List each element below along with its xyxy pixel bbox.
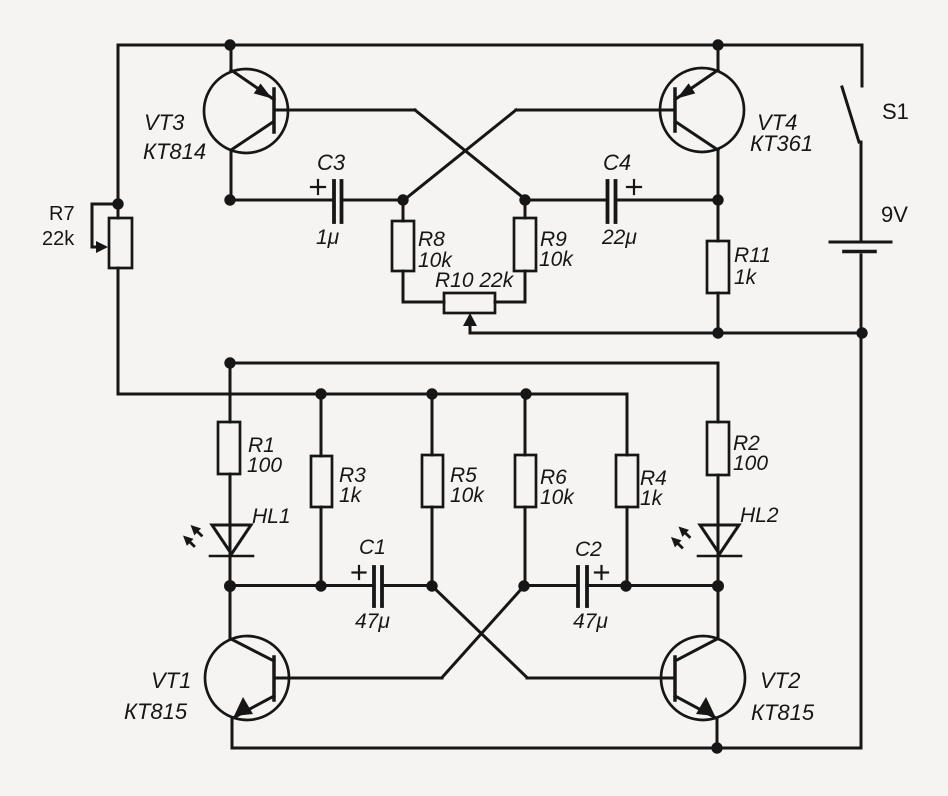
svg-text:КТ815: КТ815 [124, 699, 188, 724]
svg-text:22μ: 22μ [601, 226, 637, 249]
svg-text:HL2: HL2 [740, 504, 779, 527]
svg-text:VT2: VT2 [760, 668, 800, 693]
svg-text:VT1: VT1 [151, 668, 191, 693]
svg-text:1k: 1k [339, 484, 363, 507]
svg-text:КТ815: КТ815 [751, 700, 815, 725]
svg-text:R10 22k: R10 22k [435, 269, 515, 292]
svg-text:C2: C2 [575, 538, 602, 561]
svg-text:100: 100 [733, 452, 768, 475]
svg-text:HL1: HL1 [252, 505, 291, 528]
svg-text:47μ: 47μ [355, 610, 390, 633]
svg-text:22k: 22k [42, 228, 75, 250]
svg-text:10k: 10k [539, 248, 574, 271]
svg-text:1k: 1k [734, 266, 758, 289]
svg-text:1μ: 1μ [316, 226, 340, 249]
svg-text:VT3: VT3 [144, 110, 185, 135]
svg-text:КТ814: КТ814 [143, 139, 206, 164]
svg-text:47μ: 47μ [573, 610, 608, 633]
svg-text:10k: 10k [450, 484, 485, 507]
svg-text:9V: 9V [881, 202, 908, 227]
svg-text:КТ361: КТ361 [750, 131, 813, 156]
svg-text:R7: R7 [49, 203, 75, 225]
svg-text:S1: S1 [882, 99, 909, 124]
svg-text:R11: R11 [734, 244, 771, 267]
svg-text:C4: C4 [603, 150, 631, 175]
svg-text:10k: 10k [540, 486, 575, 509]
svg-text:C1: C1 [359, 536, 386, 559]
svg-text:1k: 1k [640, 487, 664, 510]
svg-text:C3: C3 [317, 150, 346, 175]
svg-text:R8: R8 [418, 228, 445, 251]
svg-text:100: 100 [247, 454, 282, 477]
